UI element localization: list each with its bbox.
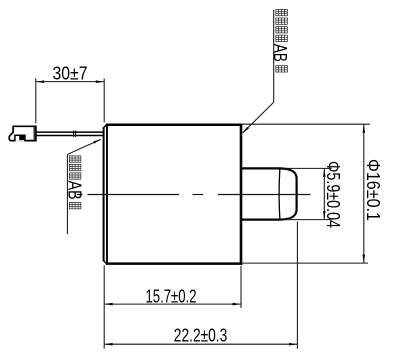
arrow left of 30±7 bbox=[36, 80, 44, 83]
arrow top of Φ5.9 bbox=[323, 169, 326, 177]
leader diagonal bbox=[243, 102, 274, 133]
body chamfer bottom-left bbox=[104, 261, 108, 264]
leader note left: 出线处点AB胶 bbox=[67, 139, 100, 234]
body right edge bbox=[240, 124, 243, 265]
dimension line bbox=[363, 124, 365, 263]
extension line left (shared with 22.2) bbox=[103, 265, 105, 348]
connector latch notch bbox=[15, 135, 25, 141]
dimension line bbox=[104, 343, 297, 345]
arrow right of 30±7 bbox=[96, 80, 104, 83]
motor body bbox=[104, 124, 243, 265]
svg-text:AB: AB bbox=[270, 44, 291, 62]
dimension 15.7±0.2 bbox=[104, 265, 241, 348]
body left outer face bbox=[103, 127, 105, 261]
leader shelf bbox=[66, 154, 68, 234]
arrow left of 22.2 bbox=[105, 343, 113, 346]
connector mating face bbox=[33, 126, 35, 140]
dimension line bbox=[323, 168, 325, 219]
wire splice tick bbox=[73, 131, 75, 137]
note text 出线点 bbox=[69, 156, 81, 162]
lead wire bbox=[36, 131, 104, 137]
extension line bottom bbox=[243, 262, 369, 264]
centerline bbox=[77, 194, 310, 196]
body bottom edge bbox=[106, 262, 243, 265]
extension line right bbox=[103, 79, 105, 123]
dimension 22.2±0.3 bbox=[104, 222, 297, 349]
dimension 30±7 bbox=[36, 79, 104, 124]
leader shelf bbox=[273, 10, 275, 102]
dimension line bbox=[36, 81, 104, 83]
arrow right of 22.2 bbox=[289, 343, 297, 346]
extension line top bbox=[283, 167, 332, 169]
dimension line bbox=[104, 303, 241, 305]
body left chamfer line bbox=[106, 124, 108, 264]
shaft bbox=[242, 168, 297, 220]
body top edge bbox=[106, 123, 243, 126]
arrow bottom of Φ16 bbox=[363, 255, 366, 263]
arrow right of 15.7 bbox=[233, 303, 241, 306]
extension line right bbox=[296, 222, 298, 349]
leader diagonal bbox=[68, 139, 101, 154]
shaft dome tangent line bbox=[278, 168, 281, 220]
svg-text:22.2±0.3: 22.2±0.3 bbox=[174, 326, 228, 346]
svg-text:15.7±0.2: 15.7±0.2 bbox=[146, 286, 197, 306]
extension line top bbox=[243, 123, 370, 125]
dimension Φ16±0.1 bbox=[243, 124, 370, 263]
extension line right bbox=[240, 266, 242, 308]
arrow left of 15.7 bbox=[105, 303, 113, 306]
connector latch tab bbox=[19, 136, 25, 141]
body chamfer top-left bbox=[104, 124, 108, 127]
arrow top of Φ16 bbox=[363, 125, 366, 133]
note text 胶 bbox=[276, 66, 288, 72]
svg-text:Φ16±0.1: Φ16±0.1 bbox=[363, 159, 383, 221]
note text 胶 bbox=[69, 202, 81, 208]
leader arrow bbox=[242, 127, 249, 133]
extension line bottom bbox=[283, 219, 332, 221]
leader note top-right: 此端面点AB胶 bbox=[243, 10, 274, 133]
svg-text:AB: AB bbox=[65, 181, 86, 200]
dimension Φ5.9±0.04 bbox=[283, 168, 332, 219]
extension line left bbox=[35, 79, 37, 124]
svg-text:Φ5.9±0.04: Φ5.9±0.04 bbox=[323, 161, 343, 228]
leader arrow bbox=[93, 139, 101, 143]
note text 此端面点 bbox=[276, 9, 288, 15]
connector P1 bbox=[9, 126, 36, 141]
arrow bottom of Φ5.9 bbox=[323, 211, 326, 219]
svg-text:30±7: 30±7 bbox=[53, 64, 88, 84]
